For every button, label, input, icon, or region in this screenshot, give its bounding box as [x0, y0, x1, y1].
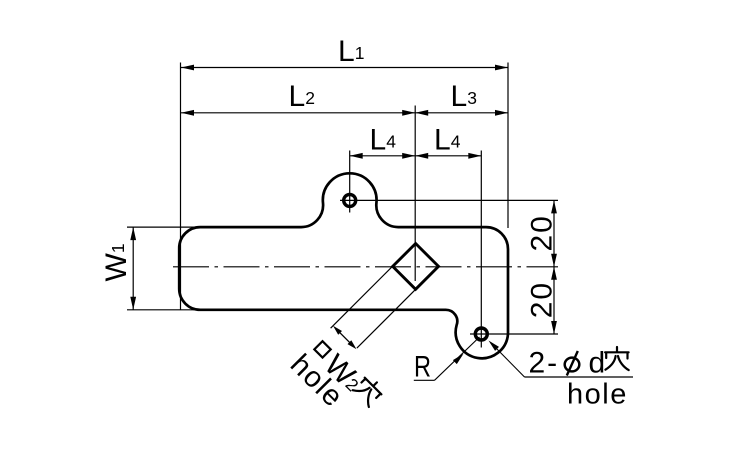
dimension 20 lower line [553, 267, 555, 334]
wire: W1 top extension [127, 226, 201, 228]
svg-text:20: 20 [525, 214, 558, 251]
dimension L1 line [181, 67, 508, 69]
hole (foot) small circle [475, 328, 487, 340]
label square-W2-ana hole (rotated 45) [284, 330, 385, 431]
svg-text:d: d [589, 347, 606, 380]
leader 2-phi-d: underline [525, 376, 634, 378]
part outline [179, 173, 508, 358]
phi symbol drawn [565, 358, 580, 372]
svg-text:L2: L2 [289, 80, 315, 113]
leader R: arrow line to foot radius [435, 337, 480, 380]
dimension L3 line [415, 112, 508, 114]
diagonal extension line lower (square hole width) [357, 288, 418, 349]
svg-text:W1: W1 [100, 243, 133, 281]
wire: W1 bottom extension [127, 309, 203, 311]
wire: horizontal extension at bump-hole level (20 dim) [340, 199, 558, 201]
wire: thin extension line right (L1/L3 datum) [507, 63, 509, 229]
hole (bump) small circle [344, 194, 356, 206]
wire: extension line through bump hole [349, 151, 351, 213]
wire: thin extension line left (L1/L2 datum) [180, 63, 182, 311]
svg-text:20: 20 [525, 281, 558, 318]
wire: extension line through foot hole [480, 151, 482, 348]
svg-text:L3: L3 [451, 80, 477, 113]
wire: horizontal extension at foot-hole level (20 dim) [470, 333, 558, 335]
dimension W2 double arrow [336, 329, 354, 347]
dimension 20 upper line [553, 200, 555, 266]
svg-text:L4: L4 [370, 124, 397, 157]
dimension L2 line [181, 112, 415, 114]
centerline (dash-dot axis) [173, 266, 558, 268]
dimension W1 line [132, 227, 134, 310]
label 20 upper (rotated) [525, 214, 558, 251]
label ana kanji (2-phi-d hole) [605, 347, 629, 370]
diagonal extension line upper (square hole width) [331, 263, 396, 328]
dimension L4 left line [350, 155, 416, 157]
svg-text:L1: L1 [338, 35, 364, 68]
svg-text:2-: 2- [529, 347, 560, 380]
svg-text:R: R [414, 351, 431, 384]
square hole (diamond) [393, 244, 439, 290]
label 20 lower (rotated) [525, 281, 558, 318]
svg-text:L4: L4 [434, 124, 461, 157]
leader R: underline [414, 379, 435, 381]
leader 2-phi-d: arrow line to hole [491, 343, 525, 378]
dimension L4 right line [415, 155, 481, 157]
svg-text:hole: hole [567, 379, 628, 411]
label W1 (rotated) [100, 243, 133, 281]
wire: middle extension line through diamond (L2/L3/L4 datum) [414, 106, 416, 282]
